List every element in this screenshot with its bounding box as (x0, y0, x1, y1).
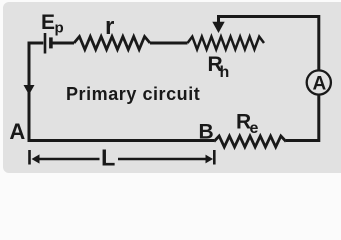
L dimension left arrowhead (32, 154, 40, 163)
wire: wiper riser, top-right horizontal, right vertical down to ammeter (217, 17, 319, 71)
svg-text:B: B (199, 120, 214, 143)
L dimension line right segment (118, 158, 206, 160)
svg-text:r: r (105, 13, 114, 40)
svg-text:A: A (313, 73, 327, 94)
wire: top-left horizontal to battery (28, 42, 44, 45)
current arrow on left wire (24, 85, 35, 95)
L dimension left tick (28, 150, 31, 165)
svg-text:A: A (9, 119, 25, 144)
wire: ammeter bottom to bottom-right corner and left to Re (286, 95, 319, 141)
rheostat Rh zigzag (188, 37, 265, 50)
svg-text:p: p (55, 19, 64, 36)
resistor Re zigzag (214, 136, 286, 147)
svg-text:E: E (41, 11, 55, 34)
svg-text:Primary circuit: Primary circuit (66, 84, 200, 104)
svg-text:h: h (220, 64, 230, 81)
wire: resistor r to rheostat Rh (150, 42, 188, 45)
rheostat wiper arrowhead (212, 22, 224, 33)
battery Ep short plate (49, 37, 53, 48)
L dimension line left segment (38, 158, 100, 160)
L dimension right arrowhead (206, 155, 214, 164)
svg-text:L: L (101, 145, 115, 171)
L dimension right tick (213, 150, 216, 165)
wire: battery to resistor r (52, 42, 74, 45)
svg-text:e: e (250, 120, 259, 137)
ammeter A circle (307, 70, 331, 94)
wire: left vertical + bottom A-B run (29, 43, 214, 141)
battery Ep long plate (44, 33, 47, 54)
resistor r zigzag (74, 37, 150, 50)
